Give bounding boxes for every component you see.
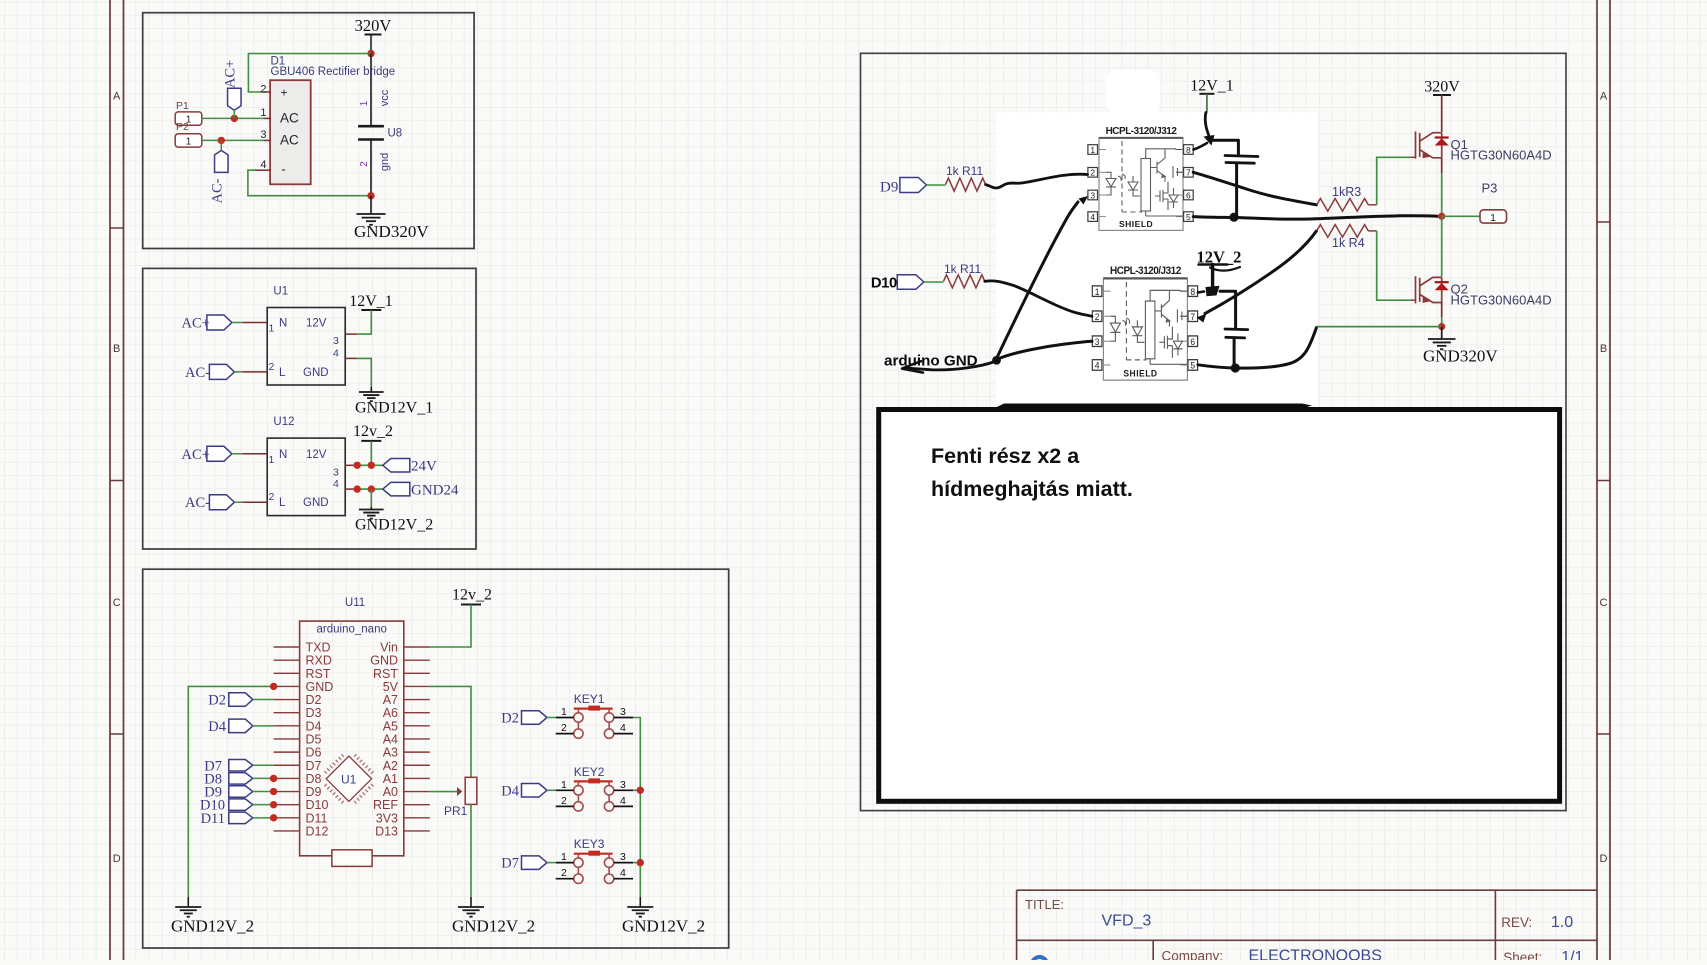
transistor Q1 HGTG30N60A4D (IGBT) [1416, 132, 1442, 159]
svg-text:3: 3 [1090, 190, 1095, 200]
power bar 12V_1 driver [1199, 93, 1214, 95]
svg-text:1: 1 [260, 107, 266, 119]
wire 5V to PR1 [430, 686, 471, 777]
key switch KEY2 contacts [574, 781, 614, 811]
U11 left pin D12 stub [274, 830, 300, 832]
wire node to P3 [1442, 215, 1480, 217]
net port AC+ for U1 [207, 315, 232, 330]
U12 pin 4 stub [345, 488, 357, 490]
power bar 320V driver [1433, 94, 1451, 96]
key switch KEY1 red cap [574, 707, 613, 709]
svg-text:24V: 24V [411, 459, 437, 475]
U11 left pin D5 stub [274, 738, 300, 740]
svg-text:U1: U1 [341, 773, 357, 787]
wire C2 to pin5 node (hand drawn) [1233, 338, 1236, 365]
wire arduino GND to HCPL2 pin3 (hand drawn) [999, 341, 1092, 358]
U11 right pin 5V stub [404, 685, 430, 687]
svg-text:GND320V: GND320V [354, 222, 429, 241]
U11 right pin A4 stub [404, 738, 430, 740]
U11 right pin A3 stub [404, 751, 430, 753]
svg-text:A0: A0 [383, 785, 398, 799]
wire R4 to Q2 gate [1368, 230, 1376, 232]
ground GND12V_2 (box3 left) [175, 907, 201, 917]
U11 right pin A5 stub [404, 725, 430, 727]
svg-text:3: 3 [333, 466, 339, 478]
net port D8 (arduino left) [229, 773, 253, 785]
U11 left pin RXD stub [274, 659, 300, 661]
U11 right pin GND stub [404, 659, 430, 661]
KEY1 pin3 lead [614, 717, 633, 719]
D1 pin 2 stub [263, 91, 270, 93]
wire 320V to Q1 collector [1441, 95, 1443, 132]
svg-text:D7: D7 [306, 759, 322, 773]
frame left border lines [109, 0, 111, 960]
capacitor U8 lead bottom [370, 140, 372, 196]
capacitor U8 plates [358, 125, 384, 128]
U11 left pin RST stub [274, 672, 300, 674]
svg-text:2: 2 [561, 867, 567, 879]
svg-text:1: 1 [561, 779, 567, 791]
svg-text:D3: D3 [306, 706, 322, 720]
U11 right pin REF stub [404, 804, 430, 806]
KEY3 pin4 lead [614, 878, 633, 880]
wire GND320V rail left (driver) [1317, 326, 1442, 328]
svg-text:REV:: REV: [1501, 915, 1532, 930]
wire 12V_2 stem (hand drawn) [1211, 265, 1214, 289]
U1 pin 2 stub [242, 371, 267, 373]
svg-text:U12: U12 [273, 416, 294, 428]
svg-text:2: 2 [260, 84, 266, 96]
node U11 D10 dot [270, 801, 277, 808]
ground GND12V_1 [359, 392, 384, 401]
svg-text:3: 3 [620, 706, 626, 718]
node U11 D9 dot [270, 788, 277, 795]
svg-text:KEY3: KEY3 [574, 837, 605, 851]
svg-text:4: 4 [620, 867, 626, 879]
connector P2 [175, 134, 202, 147]
wire AC+ tip to node [233, 110, 235, 118]
U11 left pin D9 stub [274, 791, 300, 793]
svg-text:GND: GND [370, 654, 398, 668]
power bar 12V_1 [361, 309, 381, 311]
svg-text:1: 1 [269, 454, 275, 466]
svg-text:AC+: AC+ [182, 447, 210, 463]
node U11 D8 dot [270, 775, 277, 782]
svg-text:1k R11: 1k R11 [946, 164, 983, 178]
svg-text:Vin: Vin [380, 641, 398, 655]
svg-text:12V_1: 12V_1 [1190, 78, 1234, 95]
svg-text:D13: D13 [375, 824, 398, 838]
svg-text:D11: D11 [201, 811, 225, 827]
frame right border lines [1596, 0, 1598, 960]
node GND320V junction (driver) [1438, 323, 1445, 330]
net port D10 (arduino left) [229, 799, 253, 811]
wire GND12V_2 left stem [187, 897, 189, 907]
svg-text:A: A [1600, 91, 1608, 103]
svg-text:1k R4: 1k R4 [1332, 236, 1365, 250]
svg-text:U1: U1 [273, 286, 288, 298]
wire D8 to U11 [253, 777, 274, 779]
net port GND24 [383, 482, 410, 496]
wire 12v_2 to Vin [430, 605, 471, 648]
block border: driver section [861, 53, 1567, 810]
key switch KEY3 contacts [574, 854, 614, 884]
frame row ticks left [110, 227, 124, 229]
svg-text:AC+: AC+ [182, 316, 210, 332]
svg-text:P3: P3 [1482, 181, 1498, 196]
wire node to capacitor C1 (hand drawn) [1212, 140, 1238, 154]
svg-text:REF: REF [373, 798, 398, 812]
wire U1 pin3 to 12V_1 [357, 310, 371, 334]
wire U12 pin4 to GND12V_2 [370, 489, 372, 507]
svg-text:U8: U8 [388, 128, 403, 140]
svg-text:A2: A2 [383, 759, 398, 773]
svg-text:12V_1: 12V_1 [349, 293, 393, 310]
wire GND320V stem (driver) [1441, 327, 1443, 339]
svg-text:L: L [279, 367, 286, 379]
connector P1 [175, 112, 202, 125]
svg-text:12v_2: 12v_2 [452, 587, 492, 604]
wire D10 to U11 [253, 804, 274, 806]
rectifier bridge D1 body [270, 80, 311, 184]
svg-text:D5: D5 [306, 732, 322, 746]
svg-text:-: - [281, 162, 285, 177]
svg-text:RST: RST [373, 667, 398, 681]
svg-text:AC: AC [280, 133, 299, 148]
net port D4 (keys) [522, 784, 548, 798]
node junction GND320V [367, 192, 374, 199]
svg-text:RST: RST [306, 667, 331, 681]
wire arduino GND to HCPL1 pin3 (hand drawn) [997, 202, 1078, 358]
white blob above HCPL1 [1106, 70, 1160, 114]
potentiometer PR1 body [465, 777, 477, 804]
U11 left pin D8 stub [274, 777, 300, 779]
U11 right pin RST stub [404, 672, 430, 674]
U1 pin 1 stub [242, 322, 267, 324]
ground GND12V_2 (box2) [359, 510, 384, 519]
net port D2 (keys) [522, 711, 548, 725]
svg-text:VFD_3: VFD_3 [1102, 913, 1152, 930]
wire A0 to PR1 wiper [430, 791, 458, 793]
svg-text:D6: D6 [306, 746, 322, 760]
svg-text:3: 3 [620, 779, 626, 791]
wire 12V_1 to pin8 node (hand drawn) [1205, 113, 1209, 138]
wire KEY3 pin3 to rail [633, 862, 640, 864]
D1 pin 4 stub [255, 169, 270, 171]
net port D2 (arduino left) [229, 693, 253, 707]
net port D9 (arduino left) [229, 786, 253, 798]
key switch KEY2 red cap [574, 780, 613, 782]
net port D7 (keys) [522, 856, 548, 870]
wire R11 to HCPL1 pin2 (hand drawn) [986, 174, 1088, 188]
svg-text:N: N [279, 318, 287, 330]
node pin8 blob (hand) [1204, 135, 1215, 146]
arrowhead at HCPL2 pin7 [1197, 314, 1207, 323]
svg-text:AC+: AC+ [223, 60, 239, 88]
svg-text:hídmeghajtás miatt.: hídmeghajtás miatt. [931, 477, 1133, 501]
wire P2 to node [202, 139, 263, 141]
U11 left pin D3 stub [274, 712, 300, 714]
svg-text:SHIELD: SHIELD [1119, 219, 1153, 229]
node keys rail KEY2 [637, 787, 644, 794]
wire D7 to U11 [253, 764, 274, 766]
svg-text:gnd: gnd [379, 153, 391, 171]
node HCPL2 pin8 blob [1206, 286, 1220, 296]
svg-text:U11: U11 [345, 597, 365, 609]
wire Q1 emitter down [1441, 158, 1443, 173]
svg-text:A: A [113, 91, 121, 103]
net port 24V [383, 459, 410, 473]
node U12 pin3 dot a [354, 462, 361, 469]
svg-text:vcc: vcc [379, 89, 391, 106]
KEY3 pin3 lead [614, 862, 633, 864]
svg-text:4: 4 [620, 795, 626, 807]
optocoupler U_HCPL2 HCPL-3120/J312 [1092, 265, 1197, 380]
U11 left pin D4 stub [274, 725, 300, 727]
ground GND320V (box1) [357, 214, 386, 225]
svg-text:12v_2: 12v_2 [353, 423, 393, 440]
svg-text:AC-: AC- [185, 365, 210, 381]
wire node to HCPL2 pin8 [1198, 292, 1204, 293]
svg-text:320V: 320V [355, 16, 392, 35]
wire HCPL2 pin5 to GND320V rail (hand drawn) [1198, 328, 1317, 369]
svg-text:D11: D11 [306, 811, 328, 825]
wire node to capacitor C2 (hand drawn) [1220, 291, 1236, 328]
regulator module U1 body [267, 308, 345, 386]
node U11 D11 dot [270, 814, 277, 821]
svg-text:AC: AC [280, 111, 299, 126]
net port AC- for U1 [209, 364, 234, 379]
node pin5 blob (hand) [1229, 213, 1238, 222]
svg-text:D9: D9 [306, 785, 322, 799]
net port AC- (pointing up) [215, 150, 229, 172]
wire R3 to Q1 gate [1368, 204, 1376, 206]
U11 right pin A1 stub [404, 777, 430, 779]
svg-text:GND24: GND24 [411, 483, 459, 499]
svg-text:D2: D2 [306, 693, 322, 707]
net port D10 [897, 275, 924, 290]
svg-text:D: D [113, 853, 121, 865]
svg-text:B: B [1600, 343, 1607, 355]
svg-text:GND: GND [303, 497, 329, 509]
svg-text:TITLE:: TITLE: [1025, 897, 1064, 912]
wire GND12V_1 stem [370, 387, 372, 392]
wire AC+ to U1 pin1 [232, 322, 242, 324]
title block borders [1017, 890, 1597, 960]
svg-text:5: 5 [1186, 212, 1191, 222]
capacitor C1 plate bottom (hand) [1226, 161, 1254, 164]
U1 pin 4 stub [345, 357, 357, 359]
wire D11 to U11 [253, 817, 274, 819]
wire AC+ to U12 pin1 [232, 453, 242, 455]
svg-text:HCPL-3120/J312: HCPL-3120/J312 [1106, 126, 1178, 137]
arrowhead at HCPL1 pin3 [1079, 196, 1089, 205]
KEY3 pin2 lead [556, 878, 574, 880]
net port AC- for U12 [209, 495, 234, 510]
svg-text:3: 3 [620, 851, 626, 863]
svg-text:2: 2 [561, 795, 567, 807]
svg-text:3: 3 [260, 129, 266, 141]
svg-text:3: 3 [333, 335, 339, 347]
svg-text:1k R11: 1k R11 [944, 262, 981, 276]
block border: arduino section [143, 569, 729, 948]
wire D1 pin4 to GND320V [248, 170, 371, 196]
svg-text:8: 8 [1186, 145, 1191, 155]
wire GND12V_2 stem box2 [370, 507, 372, 510]
node U12 pin3 dot b [368, 462, 375, 469]
svg-text:1.0: 1.0 [1551, 914, 1573, 931]
svg-text:320V: 320V [1424, 79, 1460, 96]
svg-text:RXD: RXD [306, 654, 332, 668]
wire 12v_2 stem to pin3 row [370, 441, 372, 465]
wire AC- to U1 pin2 [234, 371, 242, 373]
svg-text:D7: D7 [501, 856, 519, 872]
svg-text:A4: A4 [383, 732, 398, 746]
KEY2 pin3 lead [614, 789, 633, 791]
svg-text:A3: A3 [383, 746, 398, 760]
svg-text:1/1: 1/1 [1561, 949, 1583, 960]
wire GND12V_2 mid stem [470, 897, 472, 907]
svg-text:ELECTRONOOBS: ELECTRONOOBS [1249, 948, 1382, 961]
KEY2 pin2 lead [556, 805, 574, 807]
svg-text:D9: D9 [880, 180, 898, 196]
svg-text:D8: D8 [306, 772, 322, 786]
KEY1 pin2 lead [556, 733, 574, 735]
svg-text:D10: D10 [871, 276, 897, 292]
node AC+ junction [231, 115, 238, 122]
wire U12 pin4 to GND24 port [357, 488, 383, 490]
svg-text:P2: P2 [176, 121, 189, 133]
svg-text:HGTG30N60A4D: HGTG30N60A4D [1451, 148, 1552, 163]
hand drawn thick divider bar [996, 404, 1312, 409]
svg-text:2: 2 [359, 161, 370, 167]
wire 320V to D1 pin2 [248, 54, 371, 93]
power bar 320V [365, 34, 382, 36]
wire D10 to R11 lower [924, 281, 944, 283]
node arduino GND blob [992, 356, 1001, 365]
wire U11 GND to left rail [188, 686, 273, 897]
KEY2 pin4 lead [614, 805, 633, 807]
svg-text:GND: GND [306, 680, 334, 694]
svg-text:2: 2 [561, 722, 567, 734]
wire HCPL1 pin7 to R3 (hand drawn) [1193, 172, 1316, 205]
U11 left pin D2 stub [274, 699, 300, 701]
svg-text:D4: D4 [306, 719, 322, 733]
svg-text:D10: D10 [306, 798, 329, 812]
svg-text:1: 1 [1490, 212, 1496, 224]
net port D9 [900, 178, 927, 193]
svg-text:3V3: 3V3 [376, 811, 398, 825]
capacitor U8 lead top [370, 54, 372, 126]
svg-text:GND: GND [303, 367, 329, 379]
wire GND320V stem [370, 196, 372, 214]
U11 left pin TXD stub [274, 646, 300, 648]
capacitor C2 plate bottom (hand) [1226, 336, 1245, 339]
svg-text:A5: A5 [383, 719, 398, 733]
wire D4 to U11 [253, 725, 274, 727]
ground GND320V (driver) [1428, 339, 1456, 349]
svg-text:4: 4 [1090, 212, 1095, 222]
svg-text:GND12V_1: GND12V_1 [355, 400, 433, 417]
svg-text:Sheet:: Sheet: [1503, 950, 1542, 960]
wire 12V_1 stem driver [1206, 94, 1208, 113]
svg-text:arduino_nano: arduino_nano [317, 624, 387, 636]
svg-text:4: 4 [333, 478, 339, 490]
U11 right pin A6 stub [404, 712, 430, 714]
wire D7 to KEY3 [547, 862, 556, 864]
svg-text:1: 1 [561, 851, 567, 863]
transistor Q2 HGTG30N60A4D (IGBT) [1416, 276, 1442, 303]
hand arrow to arduino GND [907, 362, 995, 370]
block border: power modules section [143, 268, 476, 549]
key switch KEY3 red cap [574, 853, 613, 855]
wire keys common to GND12V_2 right [633, 718, 640, 898]
U11 right pin A0 stub [404, 791, 430, 793]
note box (Fenti resz) [879, 410, 1560, 802]
svg-text:1: 1 [561, 706, 567, 718]
svg-text:D4: D4 [501, 783, 519, 799]
power bar 12V_2 driver (hand) [1199, 263, 1228, 266]
wire AC- to U12 pin2 [234, 501, 242, 503]
node P3 junction [1438, 213, 1445, 220]
ground GND12V_2 (box3 right) [627, 907, 653, 917]
resistor R4 [1317, 225, 1369, 238]
net port D7 (arduino left) [229, 760, 253, 772]
svg-text:GND12V_2: GND12V_2 [171, 917, 254, 936]
wire PR1 to GND12V_2 mid [470, 804, 472, 897]
D1 pin 1 stub [263, 117, 270, 119]
svg-text:C: C [1600, 597, 1608, 609]
block border: rectifier section [143, 13, 474, 249]
wire node down to Q2 [1441, 216, 1443, 276]
wire D2 to U11 [253, 699, 274, 701]
U12 pin 3 stub [345, 464, 357, 466]
net port AC+ (pointing down) [228, 88, 242, 110]
svg-text:1kR3: 1kR3 [1332, 185, 1361, 199]
U11 usb connector rect [332, 850, 372, 867]
U11 left pin D6 stub [274, 751, 300, 753]
svg-text:L: L [279, 497, 286, 509]
capacitor C1 plate top (hand) [1225, 156, 1258, 157]
svg-text:AC-: AC- [185, 495, 210, 511]
U11 right pin Vin stub [404, 646, 430, 648]
wire D9 to R11 [926, 184, 945, 186]
KEY2 pin1 lead [556, 789, 574, 791]
svg-text:D: D [1600, 853, 1608, 865]
U11 right pin A2 stub [404, 764, 430, 766]
svg-text:GND320V: GND320V [1423, 347, 1498, 366]
svg-text:Fenti rész x2 a: Fenti rész x2 a [931, 444, 1080, 468]
connector P3 [1480, 210, 1507, 223]
KEY1 pin1 lead [556, 717, 574, 719]
svg-text:KEY2: KEY2 [574, 765, 605, 779]
U11 right pin D13 stub [404, 830, 430, 832]
svg-text:7: 7 [1186, 168, 1191, 178]
power bar 12v_2 box2 [361, 440, 381, 442]
wire R11 lower to HCPL2 pin2 (hand drawn) [985, 281, 1092, 316]
wire GND12V_2 right stem [639, 897, 641, 907]
wire HCPL1 pin5 to P3 junction (hand drawn) [1193, 216, 1437, 219]
svg-text:B: B [113, 343, 120, 355]
resistor R11 (lower) [944, 275, 985, 288]
pasted image white patch [996, 113, 1317, 404]
PR1 wiper arrow [458, 788, 462, 795]
wire 320V stem [370, 35, 372, 54]
U11 chip symbol U1 (diamond) [324, 754, 373, 803]
svg-text:KEY1: KEY1 [574, 692, 605, 706]
svg-text:12V: 12V [306, 449, 327, 461]
svg-text:GND12V_2: GND12V_2 [622, 917, 705, 936]
